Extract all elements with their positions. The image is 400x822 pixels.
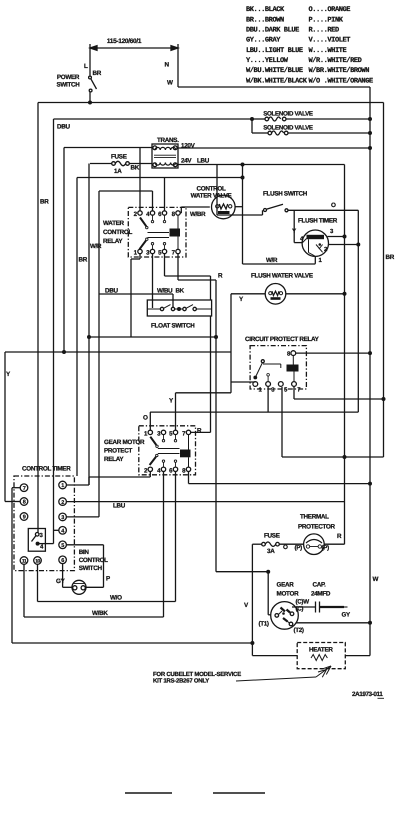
control timer box (14, 476, 74, 571)
svg-text:7: 7 (182, 431, 186, 438)
svg-text:8: 8 (172, 211, 176, 218)
wire W/BK horizontal (24, 616, 164, 618)
wire WCR pin3 drop to float switch (152, 254, 154, 308)
wire CP pin8 to W bus (296, 352, 370, 354)
node junction LBU riser / BR line (343, 455, 347, 459)
wire LBU horizontal from timer T2 (66, 501, 344, 503)
svg-text:V....VIOLET: V....VIOLET (309, 37, 351, 45)
svg-text:P: P (106, 576, 110, 583)
node junction motor T1 feed (266, 570, 270, 574)
svg-text:4: 4 (157, 467, 161, 474)
node junction DBU/solenoids (250, 117, 254, 121)
svg-text:6: 6 (158, 211, 162, 218)
svg-text:GY...GRAY: GY...GRAY (246, 37, 281, 45)
wire W/BU horizontal line (89, 336, 216, 338)
wire Y bottom horizontal (12, 642, 252, 644)
wire W/BR horizontal (5th box line) (77, 177, 243, 179)
svg-text:10: 10 (35, 559, 40, 565)
wire Y left vertical (4, 352, 6, 502)
svg-text:1: 1 (144, 431, 148, 438)
svg-text:W/R: W/R (90, 243, 102, 250)
svg-text:W/O .WHITE/ORANGE: W/O .WHITE/ORANGE (309, 76, 373, 85)
wire motor T1 drop (267, 572, 269, 615)
wire L drop (89, 44, 91, 76)
wire to fuse 1A (90, 163, 112, 165)
svg-text:W/BK: W/BK (92, 610, 108, 617)
svg-text:O: O (331, 202, 336, 209)
wire DBU left vertical to timer cam (53, 119, 55, 544)
svg-text:R: R (218, 273, 223, 280)
dimension line with arrows (92, 47, 176, 49)
svg-text:7: 7 (297, 387, 301, 394)
control timer terminal 11 (20, 557, 28, 565)
svg-text:O....ORANGE: O....ORANGE (309, 6, 351, 14)
svg-text:3: 3 (157, 431, 161, 438)
wire W/O horizontal (38, 601, 176, 603)
flush timer pin 4 lead (294, 242, 302, 244)
node junction GMP pin8 / W bus (368, 482, 372, 486)
svg-text:L: L (84, 63, 88, 70)
svg-text:(T2): (T2) (294, 627, 304, 634)
wire flush water valve right (286, 293, 345, 295)
node junction CWV drop / W-BR line (241, 176, 245, 180)
wire timer T7 drop to bottom (11, 488, 13, 643)
svg-text:FLUSH SWITCH: FLUSH SWITCH (263, 191, 308, 198)
control timer terminal 9 (20, 513, 28, 521)
node junction FT pin3 / LBU riser (343, 235, 347, 239)
node junction Y bottom / heater feed (250, 641, 254, 645)
wire FT pin4 riser (293, 210, 295, 242)
svg-text:2: 2 (61, 500, 64, 506)
svg-text:BR: BR (93, 70, 102, 77)
node junction R / W-BU line (214, 335, 218, 339)
wire 24V secondary to right (177, 164, 345, 166)
wire GMP pin1 riser (149, 412, 151, 430)
svg-text:2: 2 (134, 211, 138, 218)
wire fuse 3A to thermal protector (279, 543, 304, 545)
svg-text:W/BR.WHITE/BROWN: W/BR.WHITE/BROWN (309, 66, 370, 75)
svg-text:1: 1 (61, 483, 64, 489)
page mark right (213, 792, 265, 794)
circuit protect relay K2 (250, 346, 306, 389)
wire heater right feed (345, 655, 370, 657)
svg-text:BR: BR (79, 257, 88, 264)
svg-text:(T1): (T1) (259, 621, 269, 628)
svg-text:Y....YELLOW: Y....YELLOW (246, 57, 289, 65)
wire N horizontal to W bus (178, 86, 370, 88)
svg-text:CONTROL: CONTROL (196, 186, 225, 193)
node junction CP pin8 / W bus (368, 351, 372, 355)
wire BR bus right vertical (383, 103, 385, 458)
wire BK float feed riser (98, 191, 100, 517)
svg-text:3: 3 (271, 387, 275, 394)
wire BR bus into cam 3 (37, 103, 39, 533)
wire GMP pin5 riser (175, 393, 177, 430)
svg-text:FOR CUBELET MODEL-SERVICE: FOR CUBELET MODEL-SERVICE (153, 671, 241, 678)
wire heater feed left vertical (251, 544, 253, 655)
svg-text:6: 6 (169, 467, 173, 474)
svg-text:KIT 1RS-2B267 ONLY: KIT 1RS-2B267 ONLY (153, 677, 209, 684)
wire timer T6 to bin switch (GY) (62, 564, 64, 588)
svg-text:1: 1 (319, 257, 323, 264)
fuse F2 3A (262, 542, 266, 546)
wire timer T7 lead (12, 487, 20, 489)
wire solenoid valve 2 left (252, 132, 268, 134)
svg-text:Y: Y (169, 398, 174, 405)
svg-text:THERMAL: THERMAL (300, 514, 329, 521)
svg-text:FLOAT SWITCH: FLOAT SWITCH (151, 323, 195, 330)
wire WCR pin2 riser (139, 148, 141, 212)
svg-text:W: W (373, 576, 379, 583)
wire R vertical to gear motor feed (215, 280, 217, 572)
control timer terminal 10 (34, 557, 42, 565)
wire N drop (177, 44, 179, 87)
wire CP pin7 drop (293, 387, 295, 400)
wire W/R short line at y191 (99, 190, 153, 192)
cam switch blade (32, 536, 37, 542)
wire fuse to transformer (129, 163, 152, 165)
wire DBU drop to solenoid 2 (251, 119, 253, 133)
node junction 3rd box / Y line (62, 350, 66, 354)
thermal protector TP1 (304, 534, 325, 555)
svg-text:6: 6 (61, 558, 64, 564)
wire LBU riser x=344.5 (344, 165, 346, 545)
svg-text:W/R: W/R (266, 257, 278, 264)
svg-text:2: 2 (144, 467, 148, 474)
control timer terminal 2 (59, 498, 67, 506)
flush timer pin 2 lead (328, 244, 358, 246)
svg-text:BR: BR (40, 199, 49, 206)
svg-text:POWER: POWER (57, 74, 80, 81)
svg-text:W/BR: W/BR (190, 211, 206, 218)
wire solenoid valve 1 right (286, 118, 370, 120)
cam switch common 4 (36, 542, 40, 546)
svg-text:DBU..DARK BLUE: DBU..DARK BLUE (246, 27, 299, 35)
wire BK float feed horizontal (99, 293, 173, 295)
wire timer T1 riser (88, 477, 90, 485)
control timer terminal 1 (59, 481, 67, 489)
svg-text:3: 3 (40, 532, 44, 539)
svg-text:W/BK.WHITE/BLACK: W/BK.WHITE/BLACK (246, 76, 308, 85)
svg-text:WATER: WATER (103, 220, 125, 227)
svg-text:BR: BR (386, 254, 395, 261)
svg-text:CONTROL TIMER: CONTROL TIMER (22, 466, 71, 473)
capacitor C1 (315, 602, 317, 613)
control timer terminal 3 (59, 513, 67, 521)
wire timer T1 lead (66, 484, 89, 486)
svg-text:W: W (167, 80, 173, 87)
wire WCR pin6 riser (164, 178, 166, 212)
wire flush switch feed riser (216, 165, 218, 216)
wire CWV left bend to pin8 (180, 207, 182, 213)
wire CP pin3 drop (267, 387, 269, 413)
wire thermal protector output (324, 543, 344, 545)
svg-text:(C)W: (C)W (296, 599, 310, 606)
flush timer pin 1 lead (314, 256, 316, 263)
wire timer T3 lead (66, 516, 99, 518)
wire W bus vertical (N feed) (369, 87, 371, 656)
bin control switch S4 (72, 580, 86, 594)
gear motor M2 (271, 602, 299, 630)
wire CWV left lead (181, 206, 210, 208)
wire Y to CP pin1 (231, 381, 255, 383)
svg-text:RELAY: RELAY (104, 456, 124, 463)
svg-text:W/BU: W/BU (157, 288, 173, 295)
flush timer M1 (302, 230, 328, 256)
node junction sol2/W bus (368, 131, 372, 135)
wire BK riser (fuse corner) down to timer T1 (88, 164, 90, 486)
svg-text:SWITCH: SWITCH (56, 82, 80, 89)
wire riser to circuit protect relay pin 5 (281, 387, 283, 457)
wire WCR pin4 riser (152, 191, 154, 211)
wire solenoid valve 2 right (288, 132, 370, 134)
svg-text:BK: BK (176, 288, 185, 295)
control timer terminal 4 (59, 527, 67, 535)
transformer TR1 (152, 144, 178, 168)
svg-text:TRANS.: TRANS. (157, 137, 179, 144)
svg-text:1: 1 (134, 250, 138, 257)
svg-text:LBU..LIGHT BLUE: LBU..LIGHT BLUE (246, 47, 303, 55)
svg-text:11: 11 (22, 559, 27, 565)
svg-text:3A: 3A (267, 548, 275, 555)
wire CWV right lead (235, 206, 242, 208)
svg-text:N: N (165, 62, 170, 69)
svg-text:7: 7 (23, 486, 26, 492)
wire Y horizontal main (5, 351, 231, 353)
svg-text:HEATER: HEATER (309, 647, 333, 654)
wire W/R horizontal (243, 263, 316, 265)
node junction sol1/W bus (368, 117, 372, 121)
wire O net horizontal y412 (150, 411, 358, 413)
wire CWV right drop (242, 165, 244, 265)
svg-text:9: 9 (23, 515, 26, 521)
wire WCR pin1 drop (139, 254, 141, 259)
gear motor protect relay K3 (139, 426, 196, 475)
wire heater feed bottom (252, 655, 297, 657)
svg-text:FUSE: FUSE (111, 154, 127, 161)
svg-text:GY: GY (56, 578, 66, 585)
node junction FT pin2 lead (356, 243, 360, 247)
svg-text:GEAR: GEAR (277, 582, 295, 589)
svg-text:FLUSH TIMER: FLUSH TIMER (298, 218, 338, 225)
control timer terminal 5 (59, 541, 67, 549)
wire timer T4 lead (54, 529, 59, 531)
wire Y to GMP pin5 horizontal (176, 392, 232, 394)
svg-text:(P): (P) (295, 545, 303, 552)
control timer terminal 8 (20, 498, 28, 506)
svg-text:CIRCUIT PROTECT RELAY: CIRCUIT PROTECT RELAY (245, 336, 320, 343)
svg-text:24V: 24V (181, 158, 192, 165)
svg-text:5: 5 (158, 250, 162, 257)
svg-text:W/BU.WHITE/BLUE: W/BU.WHITE/BLUE (246, 66, 303, 75)
svg-text:3: 3 (61, 515, 64, 521)
svg-text:PROTECT: PROTECT (104, 448, 132, 455)
svg-text:5: 5 (169, 431, 173, 438)
svg-text:8: 8 (182, 467, 186, 474)
svg-text:R: R (197, 428, 202, 435)
svg-text:115-120/60/1: 115-120/60/1 (107, 38, 142, 45)
wire BR bus top horizontal (38, 102, 384, 104)
wire bin switch to timer T5 (P) (86, 586, 104, 588)
control water valve V1 (212, 195, 236, 219)
wire GMP pin4 drop (W/BK) (163, 472, 165, 618)
wire to fuse 3A (252, 543, 262, 545)
wire O drop to flush timer pin2 bus (357, 210, 359, 412)
svg-text:LBU: LBU (197, 158, 210, 165)
node junction power/BR (88, 101, 92, 105)
wire 120V to W bus (177, 147, 370, 149)
wire motor T1 feed horizontal (216, 571, 268, 573)
float switch S2 (147, 300, 211, 316)
svg-text:FUSE: FUSE (264, 533, 280, 540)
wire timer T10 drop (37, 564, 39, 601)
svg-text:4: 4 (40, 544, 44, 551)
control timer terminal 7 (20, 484, 28, 492)
wire capacitor right (GY) (320, 606, 345, 608)
cam switch box (28, 529, 45, 552)
wire BK float feed drop (172, 294, 174, 307)
page mark left (125, 792, 172, 794)
svg-text:O: O (283, 544, 288, 551)
svg-text:4: 4 (146, 211, 150, 218)
svg-text:DBU: DBU (57, 124, 70, 131)
wire GMP pin6 drop (W/O) (175, 472, 177, 602)
svg-text:MOTOR: MOTOR (277, 591, 300, 598)
svg-text:8: 8 (287, 351, 291, 358)
wire DBU horizontal (54, 118, 253, 120)
flush switch S3 (262, 210, 264, 215)
svg-text:BIN: BIN (79, 549, 90, 556)
wire WCR pin5 drop (164, 254, 166, 276)
flush timer pin 3 lead (328, 236, 345, 238)
svg-text:BK...BLACK: BK...BLACK (246, 6, 285, 14)
wire WCR pin7 drop (R) (177, 254, 179, 280)
wire 5th box vertical (76, 178, 78, 477)
heater HR1 (297, 643, 345, 669)
node junction CP pin7 / BR bus (382, 397, 386, 401)
wire flush switch feed horizontal (217, 214, 263, 216)
wire flush switch output (288, 209, 358, 211)
svg-text:BR...BROWN: BR...BROWN (246, 16, 284, 24)
wire to flush water valve (231, 293, 265, 295)
solenoid valve 2 coil (268, 131, 272, 135)
svg-text:8: 8 (23, 500, 26, 506)
wire motor to capacitor (292, 606, 315, 608)
wire timer T11 drop (23, 564, 25, 617)
svg-text:Y: Y (6, 371, 11, 378)
svg-text:1A: 1A (114, 168, 122, 175)
svg-text:5: 5 (61, 543, 64, 549)
svg-text:24MFD: 24MFD (311, 591, 331, 598)
svg-text:(P): (P) (322, 545, 330, 552)
wire DBU into cam common (38, 543, 54, 545)
wire solenoid valve 1 left (252, 118, 265, 120)
svg-text:CAP.: CAP. (313, 582, 327, 589)
wire from power switch to BR bus (89, 92, 91, 103)
svg-text:LBU: LBU (113, 503, 126, 510)
cam switch contact 3 (35, 533, 39, 537)
node junction motor T2 / W bus (368, 621, 372, 625)
wire Y riser (valve to CP relay) (230, 294, 232, 393)
svg-text:O: O (143, 415, 148, 422)
control timer terminal 6 (59, 556, 67, 564)
solenoid valve 1 coil (265, 117, 269, 121)
node junction 120V/W bus (368, 146, 372, 150)
wire left vertical (3rd box) to Y line (63, 148, 65, 353)
svg-text:FLUSH WATER VALVE: FLUSH WATER VALVE (251, 273, 313, 280)
svg-text:1: 1 (259, 387, 263, 394)
flush water valve V2 (265, 284, 286, 305)
svg-text:5: 5 (284, 387, 288, 394)
node junction BK riser / W-BU line (87, 335, 91, 339)
wire motor T2 to W bus (296, 622, 371, 624)
wire timer T8 lead (5, 501, 20, 503)
svg-text:BK: BK (131, 165, 140, 172)
svg-text:RELAY: RELAY (103, 238, 123, 245)
svg-text:GY: GY (342, 612, 352, 619)
svg-text:R....RED: R....RED (309, 27, 339, 35)
svg-text:PROTECTOR: PROTECTOR (298, 524, 335, 531)
svg-text:W....WHITE: W....WHITE (309, 47, 347, 55)
svg-text:V: V (244, 602, 249, 609)
wire float sw to GMP pin7 (210, 316, 212, 432)
svg-text:7: 7 (172, 250, 176, 257)
svg-text:3: 3 (330, 228, 334, 235)
svg-text:W/O: W/O (110, 595, 122, 602)
fuse F1 1A (112, 162, 116, 166)
node junction 24V/CWV drop (241, 163, 245, 167)
node junction FWV / LBU riser (343, 292, 347, 296)
svg-text:SOLENOID VALVE: SOLENOID VALVE (263, 125, 313, 132)
wire GMP pin8 drop (188, 472, 190, 484)
svg-text:P....PINK: P....PINK (309, 16, 344, 24)
svg-text:3: 3 (146, 250, 150, 257)
wire GMP pin2 drop (149, 472, 151, 478)
service arrow to heater (236, 677, 316, 681)
svg-text:R: R (337, 533, 342, 540)
svg-text:2A1973-011: 2A1973-011 (352, 691, 383, 698)
svg-text:W/R..WHITE/RED: W/R..WHITE/RED (309, 56, 362, 65)
svg-text:SWITCH: SWITCH (79, 565, 103, 572)
wire BR bottom horizontal to CP relay (282, 456, 384, 458)
svg-text:Y: Y (239, 296, 244, 303)
water control relay K1 (128, 207, 186, 257)
wire transformer primary left (64, 147, 153, 149)
